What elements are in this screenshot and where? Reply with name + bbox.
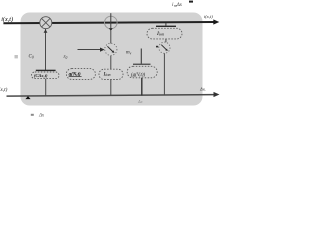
svg-text:Δx: Δx xyxy=(38,113,45,118)
svg-text:(g(V,t)): (g(V,t)) xyxy=(131,73,146,78)
svg-text:(CΔx,t): (CΔx,t) xyxy=(34,73,48,78)
svg-text:i(x,t): i(x,t) xyxy=(204,14,213,20)
svg-text:i(x,t): i(x,t) xyxy=(1,16,13,23)
svg-text:r0: r0 xyxy=(64,55,68,60)
svg-text:v(x,t): v(x,t) xyxy=(0,86,8,93)
svg-text:Δx: Δx xyxy=(137,99,143,104)
svg-text:Iion: Iion xyxy=(156,31,164,37)
svg-text:C0: C0 xyxy=(29,55,34,60)
svg-text:Iion: Iion xyxy=(103,71,111,77)
svg-text:i mΔx: i mΔx xyxy=(172,2,183,8)
svg-text:mv: mv xyxy=(126,51,132,56)
